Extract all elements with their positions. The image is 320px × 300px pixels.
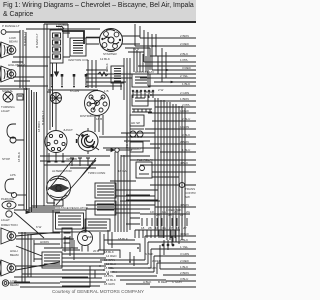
svg-text:TO TRANS: TO TRANS <box>125 133 129 148</box>
svg-text:1Y: 1Y <box>180 213 184 217</box>
svg-text:1 BLU: 1 BLU <box>182 148 190 152</box>
svg-text:R BLK: R BLK <box>105 63 109 72</box>
svg-text:STOP: STOP <box>2 157 10 161</box>
svg-text:JUNCT: JUNCT <box>63 128 73 132</box>
svg-text:2B: 2B <box>148 226 152 230</box>
svg-text:18: 18 <box>141 226 145 230</box>
svg-text:B MAIN LT: B MAIN LT <box>23 31 27 46</box>
svg-text:2 BRN: 2 BRN <box>180 271 189 275</box>
svg-text:2 BRN: 2 BRN <box>180 140 189 144</box>
svg-text:1 BLK: 1 BLK <box>180 265 188 269</box>
svg-text:12 BLK: 12 BLK <box>100 57 110 61</box>
svg-text:4 BLK: 4 BLK <box>180 161 188 165</box>
svg-text:1 GRN: 1 GRN <box>180 125 189 129</box>
svg-text:1 PPL: 1 PPL <box>180 58 189 62</box>
svg-text:R MAIN LT: R MAIN LT <box>35 33 39 48</box>
svg-text:ALTERNATOR: ALTERNATOR <box>52 169 73 173</box>
svg-text:2 BLK: 2 BLK <box>180 52 188 56</box>
svg-text:STARTER: STARTER <box>103 52 118 56</box>
svg-text:AMP: AMP <box>86 235 93 239</box>
svg-text:HIGH BEAM: HIGH BEAM <box>8 63 25 67</box>
svg-text:1B: 1B <box>176 226 180 230</box>
svg-text:BEAM: BEAM <box>10 283 19 287</box>
svg-text:2 YEL: 2 YEL <box>180 74 188 78</box>
svg-text:2Y: 2Y <box>169 226 173 230</box>
svg-text:4 RED BLK: 4 RED BLK <box>166 208 181 212</box>
svg-text:B: B <box>150 93 152 97</box>
svg-text:A BLK: A BLK <box>145 252 153 256</box>
svg-text:18 B: 18 B <box>96 117 102 121</box>
svg-text:RADIO: RADIO <box>131 147 141 151</box>
svg-text:A RED: A RED <box>152 259 162 263</box>
svg-text:18 GRN: 18 GRN <box>104 282 115 286</box>
svg-text:1R: 1R <box>155 226 160 230</box>
svg-text:IGNITION COIL: IGNITION COIL <box>68 58 90 62</box>
svg-text:SW: SW <box>185 195 190 199</box>
svg-text:DIRECTION: DIRECTION <box>1 223 18 227</box>
svg-text:20 B: 20 B <box>93 249 99 253</box>
svg-text:1 RED: 1 RED <box>132 90 142 94</box>
svg-text:FLD RELAY: FLD RELAY <box>137 158 153 162</box>
svg-text:A BLK: A BLK <box>143 280 151 284</box>
svg-text:3G: 3G <box>162 226 167 230</box>
svg-text:2 RED: 2 RED <box>180 42 190 46</box>
svg-text:2 BRN: 2 BRN <box>180 34 189 38</box>
svg-text:2 PPL: 2 PPL <box>182 103 191 107</box>
svg-text:6 GRN: 6 GRN <box>70 89 79 93</box>
svg-text:DIR SIG: DIR SIG <box>131 135 143 139</box>
svg-text:3 GRN: 3 GRN <box>180 252 189 256</box>
svg-text:2 B: 2 B <box>60 177 65 181</box>
svg-text:3 BLK: 3 BLK <box>182 133 190 137</box>
svg-text:HORN: HORN <box>40 240 49 244</box>
svg-text:B RED: B RED <box>158 280 168 284</box>
svg-text:16 GA: 16 GA <box>118 169 127 173</box>
svg-text:1R: 1R <box>150 210 155 214</box>
svg-text:LIGHT: LIGHT <box>1 109 10 113</box>
svg-text:A GRN: A GRN <box>148 266 157 270</box>
svg-text:P RANGE LT: P RANGE LT <box>2 24 20 28</box>
svg-text:TWIN CONN: TWIN CONN <box>88 171 105 175</box>
svg-text:HD SP: HD SP <box>131 121 140 125</box>
svg-text:2B: 2B <box>156 213 160 217</box>
svg-text:VOLTAGE REGULATOR: VOLTAGE REGULATOR <box>55 206 89 210</box>
svg-text:3 RED: 3 RED <box>182 66 192 70</box>
svg-text:3 G: 3 G <box>152 44 158 48</box>
svg-text:18 BLK: 18 BLK <box>118 237 128 241</box>
svg-text:1 BLK: 1 BLK <box>182 82 190 86</box>
svg-text:SIGNAL: SIGNAL <box>2 89 13 93</box>
svg-text:HORN RELAY: HORN RELAY <box>135 70 154 74</box>
svg-text:BEAM: BEAM <box>10 253 19 257</box>
svg-text:C GRN: C GRN <box>172 280 182 284</box>
svg-text:2P: 2P <box>183 226 187 230</box>
svg-text:1 B: 1 B <box>104 89 109 93</box>
svg-text:4 RED: 4 RED <box>180 232 190 236</box>
svg-text:2G: 2G <box>186 210 191 214</box>
svg-text:LIGHT: LIGHT <box>1 218 10 222</box>
svg-text:IGN SW: IGN SW <box>66 157 77 161</box>
svg-text:BEAM: BEAM <box>9 40 18 44</box>
svg-text:4 BRN: 4 BRN <box>180 203 189 207</box>
svg-text:3B: 3B <box>168 213 172 217</box>
svg-text:2 RED: 2 RED <box>180 259 190 263</box>
svg-text:LPS: LPS <box>10 173 16 177</box>
svg-text:1 BRN: 1 BRN <box>180 97 189 101</box>
svg-text:18 BLK: 18 BLK <box>17 152 21 162</box>
svg-text:6 W: 6 W <box>36 225 42 229</box>
svg-text:2 BLK: 2 BLK <box>180 238 188 242</box>
svg-text:2 W: 2 W <box>158 88 164 92</box>
svg-text:1 YEL: 1 YEL <box>180 245 188 249</box>
svg-text:1 RED: 1 RED <box>180 109 190 113</box>
svg-text:2 BLU: 2 BLU <box>182 117 190 121</box>
svg-text:B MAIN LT: B MAIN LT <box>41 110 45 125</box>
svg-text:2 GRN: 2 GRN <box>180 91 189 95</box>
svg-text:LINK: LINK <box>58 27 65 31</box>
